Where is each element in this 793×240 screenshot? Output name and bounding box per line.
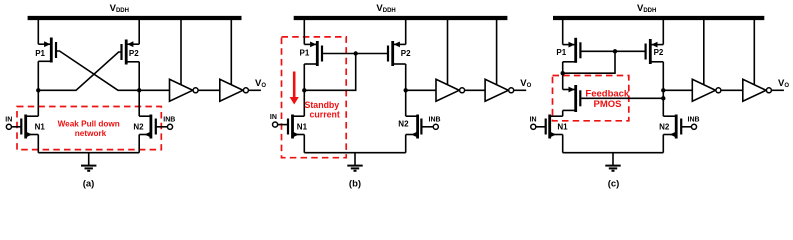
svg-text:VDDH: VDDH bbox=[637, 3, 656, 14]
svg-text:Feedback: Feedback bbox=[585, 89, 630, 100]
svg-text:P2: P2 bbox=[129, 49, 139, 58]
inverter U2(a) bbox=[220, 18, 249, 101]
wire: N2(a) source to ground rail bbox=[138, 135, 140, 153]
output wire and VO label (b) bbox=[514, 78, 532, 91]
svg-text:INB: INB bbox=[429, 116, 441, 123]
svg-text:VDDH: VDDH bbox=[376, 3, 395, 14]
red dashed annotation box: Weak Pull down network bbox=[17, 107, 161, 150]
svg-text:P1: P1 bbox=[300, 49, 310, 58]
node Q(b) junction bbox=[404, 88, 408, 92]
red arrow: standby current direction bbox=[290, 72, 299, 105]
nmos N2(c) bbox=[659, 115, 699, 139]
inverter U1(b) bbox=[436, 18, 465, 101]
red label: Standby current bbox=[305, 100, 340, 120]
pmos P2(b) bbox=[388, 18, 411, 66]
wire: N1(a) source to ground rail bbox=[37, 135, 39, 153]
svg-text:VO: VO bbox=[255, 78, 266, 89]
red dashed annotation box: Feedback PMOS bbox=[553, 76, 629, 121]
node on gate wire (b) bbox=[354, 51, 358, 55]
node QB(a) junction bbox=[36, 88, 40, 92]
svg-text:(a): (a) bbox=[83, 179, 95, 190]
wire: P1(c) drain vertical bbox=[562, 62, 564, 73]
wire: N2(c) source to ground rail bbox=[662, 135, 664, 153]
output wire and VO label (a) bbox=[249, 78, 267, 91]
svg-text:INB: INB bbox=[688, 116, 700, 123]
pmos P2(a) bbox=[122, 18, 140, 65]
wire: bottom ground rail (b) bbox=[304, 152, 405, 154]
node Q(a) junction bbox=[137, 88, 141, 92]
red label: Feedback PMOS bbox=[585, 89, 630, 110]
svg-text:current: current bbox=[310, 109, 340, 119]
wire: P1(a) gate cross-coupled to node Q(a) bbox=[57, 51, 139, 90]
svg-text:network: network bbox=[75, 129, 107, 138]
svg-text:N2: N2 bbox=[133, 123, 144, 132]
wire: bottom ground rail (c) bbox=[563, 152, 664, 154]
wire: right branch Q(a) vertical bbox=[138, 62, 140, 116]
node QB(b) junction bbox=[302, 88, 306, 92]
svg-text:IN: IN bbox=[530, 116, 537, 123]
svg-text:P1: P1 bbox=[556, 48, 566, 57]
svg-text:INB: INB bbox=[163, 116, 175, 123]
wire: bottom ground rail (a) bbox=[38, 152, 139, 154]
wire: right branch Q(c) vertical bbox=[662, 62, 664, 116]
svg-text:N2: N2 bbox=[398, 120, 409, 129]
svg-text:Standby: Standby bbox=[305, 100, 340, 110]
svg-text:(c): (c) bbox=[608, 179, 620, 190]
wire: N1(c) source to ground rail bbox=[562, 135, 564, 153]
wire: P2(a) gate cross-coupled to node QB(a) bbox=[38, 52, 120, 90]
pmos P1(a) bbox=[35, 18, 56, 63]
wire: left branch QB(a) vertical bbox=[37, 61, 39, 116]
ground (a) bbox=[81, 153, 96, 171]
pmos P2(c) bbox=[646, 18, 664, 64]
node: feedback gate tap on Q(c) bbox=[661, 96, 665, 100]
svg-text:P2: P2 bbox=[654, 48, 664, 57]
pmos P1(b) bbox=[300, 18, 323, 66]
wire: node Q(a) to inverter input bbox=[139, 89, 169, 91]
svg-text:VDDH: VDDH bbox=[110, 3, 129, 14]
VDDH power rail (a) bbox=[28, 16, 242, 20]
nmos N1(c) bbox=[530, 115, 569, 139]
svg-text:Weak Pull down: Weak Pull down bbox=[58, 119, 120, 128]
svg-text:P2: P2 bbox=[401, 49, 411, 58]
wire: right branch Q(b) vertical bbox=[405, 64, 407, 116]
red label: Weak Pull down network bbox=[58, 119, 120, 137]
svg-text:N1: N1 bbox=[35, 123, 46, 132]
pmos P1(c) bbox=[556, 18, 580, 63]
node Q(c) junction bbox=[661, 88, 665, 92]
wire: gate node down to QB(c) bbox=[563, 51, 615, 73]
inverter U2(b) bbox=[485, 18, 514, 101]
svg-text:N1: N1 bbox=[297, 123, 308, 132]
wire: P1(b) gate to P2(b) gate bbox=[323, 53, 387, 55]
svg-text:P1: P1 bbox=[35, 49, 45, 58]
inverter U2(c) bbox=[743, 18, 772, 101]
wire: feedback pmos gate to node Q(c) bbox=[581, 97, 663, 99]
wire: inverter U1(c) to U2(c) bbox=[721, 89, 743, 91]
svg-text:IN: IN bbox=[270, 114, 277, 121]
wire: P1(c) gate to P2(c) gate bbox=[581, 50, 644, 52]
svg-text:IN: IN bbox=[5, 116, 12, 123]
nmos N2(b) bbox=[398, 115, 440, 139]
wire: gate node down to QB(b) bbox=[304, 54, 355, 91]
wire: node Q(c) to inverter input bbox=[663, 89, 692, 91]
svg-text:VO: VO bbox=[778, 78, 789, 89]
red dashed annotation box: Standby current branch bbox=[282, 37, 347, 158]
node on gate wire (c) bbox=[613, 49, 617, 53]
svg-text:N1: N1 bbox=[557, 123, 568, 132]
inverter U1(c) bbox=[692, 18, 721, 101]
VDDH power rail (c) bbox=[553, 16, 764, 20]
svg-text:VO: VO bbox=[520, 78, 531, 89]
node QB(c) junction bbox=[561, 71, 565, 75]
nmos N1(b) bbox=[270, 114, 308, 138]
wire: N1(b) source to ground rail bbox=[303, 135, 305, 153]
svg-text:PMOS: PMOS bbox=[594, 99, 622, 110]
nmos N1(a) bbox=[5, 115, 45, 139]
svg-text:N2: N2 bbox=[659, 123, 670, 132]
ground (b) bbox=[347, 153, 362, 171]
VDDH power rail (b) bbox=[294, 16, 508, 20]
nmos N2(a) bbox=[133, 115, 175, 139]
output wire and VO label (c) bbox=[772, 78, 790, 91]
wire: inverter U1(a) to U2(a) bbox=[198, 89, 219, 91]
wire: inverter U1(b) to U2(b) bbox=[465, 89, 485, 91]
svg-text:(b): (b) bbox=[349, 179, 361, 190]
inverter U1(a) bbox=[170, 18, 199, 101]
wire: N2(b) source to ground rail bbox=[405, 135, 407, 153]
wire: node Q(b) to inverter input bbox=[406, 89, 436, 91]
feedback pmos MF(c) bbox=[563, 73, 581, 116]
wire: left branch QB(b) vertical bbox=[303, 64, 305, 116]
ground (c) bbox=[605, 153, 620, 171]
